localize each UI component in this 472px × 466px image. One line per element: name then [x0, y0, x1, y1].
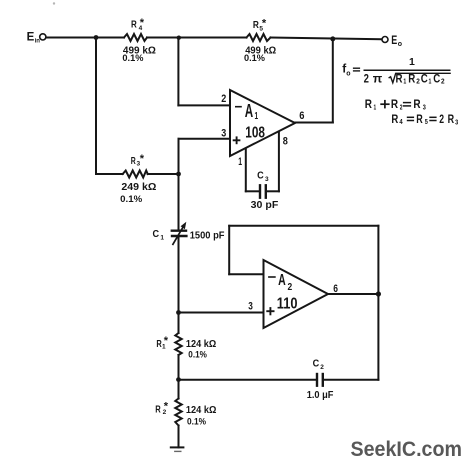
svg-text:π: π — [373, 72, 383, 86]
svg-text:in: in — [35, 38, 41, 44]
svg-text:124 kΩ: 124 kΩ — [186, 404, 217, 416]
svg-text:2: 2 — [364, 72, 370, 86]
svg-text:A: A — [278, 272, 286, 289]
svg-text:E: E — [27, 32, 35, 44]
svg-text:3: 3 — [265, 176, 269, 183]
svg-text:1500 pF: 1500 pF — [190, 230, 225, 242]
svg-text:o: o — [398, 41, 402, 48]
svg-text:30 pF: 30 pF — [251, 199, 279, 211]
svg-text:110: 110 — [277, 296, 298, 313]
svg-text:o: o — [346, 70, 350, 77]
svg-text:0.1%: 0.1% — [188, 349, 207, 360]
svg-text:*: * — [164, 335, 169, 347]
svg-text:2: 2 — [439, 114, 444, 126]
svg-text:R: R — [365, 99, 373, 111]
svg-text:A: A — [245, 101, 253, 121]
svg-text:R: R — [391, 99, 399, 111]
svg-text:E: E — [391, 33, 397, 47]
svg-text:2: 2 — [400, 105, 403, 112]
svg-text:1: 1 — [409, 56, 415, 68]
svg-text:R: R — [155, 403, 161, 415]
svg-text:2: 2 — [441, 79, 445, 86]
svg-text:SeekIC.com: SeekIC.com — [351, 437, 463, 461]
svg-text:2: 2 — [320, 364, 324, 371]
svg-text:3: 3 — [248, 300, 253, 312]
svg-text:2: 2 — [221, 93, 226, 105]
svg-text:5: 5 — [425, 119, 428, 126]
svg-text:1: 1 — [403, 79, 406, 86]
svg-text:3: 3 — [423, 105, 426, 112]
svg-text:R: R — [413, 99, 421, 111]
svg-text:4: 4 — [399, 119, 402, 126]
svg-text:C: C — [153, 228, 160, 240]
svg-text:R: R — [131, 19, 137, 31]
svg-text:0.1%: 0.1% — [244, 53, 266, 64]
svg-text:1: 1 — [374, 105, 377, 112]
svg-text:R: R — [391, 114, 398, 126]
svg-text:249 kΩ: 249 kΩ — [121, 181, 156, 193]
svg-text:124 kΩ: 124 kΩ — [186, 338, 216, 350]
svg-text:1: 1 — [238, 156, 242, 168]
svg-text:R: R — [131, 155, 136, 167]
svg-text:*: * — [262, 18, 267, 30]
svg-text:2: 2 — [416, 79, 420, 86]
svg-text:1: 1 — [429, 79, 432, 86]
svg-text:1: 1 — [160, 235, 164, 242]
svg-text:3: 3 — [221, 128, 226, 140]
svg-text:*: * — [140, 17, 145, 29]
svg-text:1.0 μF: 1.0 μF — [307, 390, 334, 401]
svg-text:R: R — [416, 114, 423, 126]
svg-text:R: R — [253, 19, 259, 31]
svg-text:1: 1 — [255, 111, 259, 122]
svg-text:6: 6 — [299, 110, 304, 122]
svg-text:108: 108 — [245, 125, 265, 142]
svg-text:2: 2 — [288, 282, 293, 293]
svg-text:*: * — [164, 400, 169, 412]
svg-text:C: C — [313, 357, 320, 369]
svg-text:C: C — [257, 170, 264, 182]
svg-text:8: 8 — [283, 135, 288, 147]
svg-text:R: R — [448, 114, 455, 126]
svg-text:6: 6 — [333, 283, 338, 295]
svg-text:0.1%: 0.1% — [122, 53, 144, 64]
svg-text:*: * — [140, 153, 145, 165]
svg-text:0.1%: 0.1% — [120, 194, 143, 205]
svg-text:0.1%: 0.1% — [187, 417, 206, 428]
svg-text:3: 3 — [455, 119, 458, 126]
